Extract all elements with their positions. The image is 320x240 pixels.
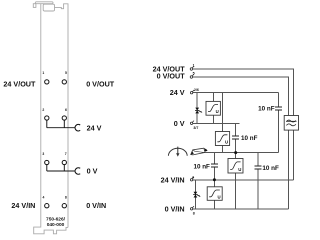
svg-text:3/7: 3/7 [193, 126, 198, 130]
svg-text:U: U [238, 167, 241, 172]
svg-text:24 V/IN: 24 V/IN [161, 175, 185, 184]
svg-text:0 V: 0 V [174, 119, 185, 128]
svg-text:0 V: 0 V [87, 166, 98, 175]
svg-text:5: 5 [193, 71, 195, 75]
svg-text:U: U [225, 140, 228, 145]
svg-text:10 nF: 10 nF [241, 135, 258, 142]
svg-text:0 V/IN: 0 V/IN [86, 201, 106, 210]
svg-text:4: 4 [192, 176, 194, 180]
svg-text:U: U [217, 194, 220, 199]
svg-text:24 V: 24 V [87, 123, 102, 132]
svg-text:10 nF: 10 nF [258, 106, 275, 113]
svg-text:10 nF: 10 nF [193, 164, 210, 171]
svg-text:2: 2 [42, 108, 44, 112]
svg-text:0 V/IN: 0 V/IN [165, 204, 185, 213]
svg-text:0 V/OUT: 0 V/OUT [157, 72, 186, 81]
svg-text:24 V: 24 V [170, 88, 185, 97]
svg-text:6: 6 [65, 108, 67, 112]
svg-text:24 V/OUT: 24 V/OUT [3, 80, 36, 89]
svg-text:10 nF: 10 nF [262, 165, 279, 172]
svg-text:2/6: 2/6 [194, 88, 199, 92]
svg-text:5: 5 [65, 71, 67, 75]
svg-text:750-626/: 750-626/ [46, 217, 66, 223]
svg-text:24 V/IN: 24 V/IN [11, 201, 35, 210]
svg-text:7: 7 [65, 152, 67, 156]
svg-text:1: 1 [42, 71, 44, 75]
svg-text:8: 8 [193, 212, 195, 216]
svg-text:3: 3 [42, 152, 44, 156]
svg-text:0 V/OUT: 0 V/OUT [86, 80, 115, 89]
svg-text:4: 4 [42, 196, 44, 200]
svg-text:U: U [216, 109, 219, 114]
svg-text:1: 1 [193, 63, 195, 67]
svg-text:8: 8 [65, 196, 67, 200]
svg-text:040-000: 040-000 [47, 222, 65, 228]
